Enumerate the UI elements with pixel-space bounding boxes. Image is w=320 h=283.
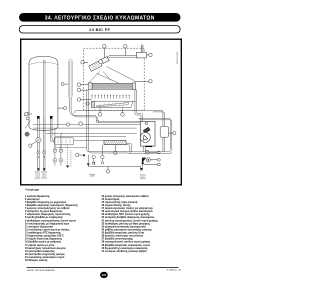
fan assembly: [89, 56, 109, 71]
label circle top B: [124, 45, 128, 56]
label circle exchanger right: [134, 80, 152, 84]
primary pipes to pump: [33, 118, 172, 150]
diagram frame: [21, 39, 182, 185]
svg-text:χρήσης: χρήσης: [35, 176, 41, 179]
DHW inlet widgets: [53, 145, 63, 166]
main heat exchanger: [89, 83, 136, 90]
page number badge: [100, 272, 108, 278]
svg-text:ΟΔΗΓΙΕΣ ΓΙΑ ΤΟΝ ΕΓΚΑΤΑΣΤΑΤΗ: ΟΔΗΓΙΕΣ ΓΙΑ ΤΟΝ ΕΓΚΑΤΑΣΤΑΤΗ: [27, 269, 56, 272]
svg-text:34. ΛΕΙΤΟΥΡΓΙΚΟ ΣΧΕΔΙΟ ΚΥΚΛΩΜΑ: 34. ΛΕΙΤΟΥΡΓΙΚΟ ΣΧΕΔΙΟ ΚΥΚΛΩΜΑΤΩΝ: [45, 16, 155, 22]
secondary exchanger outlet bends: [126, 143, 133, 153]
svg-text:41 σωλήνας σύνδεσης μπόιλερ-λ: 41 σωλήνας σύνδεσης μπόιλερ-λέβητα: [102, 250, 148, 253]
label cold water in: [41, 171, 47, 180]
label circle 50: [58, 107, 67, 110]
connector pipe: [54, 146, 86, 148]
three way valve dark body: [142, 158, 151, 165]
svg-text:δικτύου: δικτύου: [140, 177, 146, 180]
pump motor: [143, 127, 151, 134]
pump group housing: [141, 121, 156, 146]
label circle gas pipe: [106, 167, 109, 174]
expansion vessel / flow sensor: [160, 112, 172, 152]
gas arrow: [140, 168, 143, 171]
footer rule: [27, 267, 179, 269]
label circle top A: [103, 45, 107, 59]
burner: [91, 101, 133, 110]
svg-text:24 BIC FF: 24 BIC FF: [89, 27, 110, 32]
boiler dashed casing: [84, 48, 145, 110]
tap valve A with label: [92, 155, 95, 165]
left edge components: [24, 112, 41, 142]
drain dashed pipe: [68, 146, 71, 168]
label gas inlet: [89, 173, 95, 178]
tank sensor S2: [50, 116, 53, 119]
bottom right pipes: [128, 146, 172, 153]
label circle hydraulic: [66, 123, 69, 126]
label circle safety valve: [29, 142, 37, 148]
diverter valve crossed circle: [145, 150, 149, 154]
svg-text:αερίου: αερίου: [90, 175, 95, 178]
svg-text:Υπόμνημα: Υπόμνημα: [25, 187, 39, 191]
bottom pipe text labels: [34, 171, 146, 181]
label circle 49: [61, 83, 68, 86]
label circle filter: [76, 153, 85, 156]
label circles valve right: [150, 158, 160, 161]
pipe bends left: [55, 128, 63, 149]
legend right column: [102, 195, 159, 253]
label circle secondary exchanger: [114, 145, 117, 155]
secondary exchanger: [104, 140, 126, 144]
bypass loop: [54, 138, 74, 145]
flow arrows on DHW pipes: [37, 151, 46, 154]
pipes from column to boiler: [70, 98, 141, 123]
DHW outlet pipes: [38, 118, 55, 171]
storage tank: [29, 56, 58, 130]
vent circle on pipe: [96, 120, 98, 122]
svg-text:9912070100: 9912070100: [177, 51, 179, 64]
label circle pump top: [145, 122, 148, 125]
label circle mid left: [79, 122, 83, 126]
label circle gas A: [98, 110, 102, 116]
pump circle: [140, 132, 150, 142]
label circle gas B: [121, 110, 125, 116]
burner tip line: [133, 101, 136, 103]
anode column: [68, 60, 72, 98]
label circle 27: [147, 53, 153, 57]
title bar: [19, 13, 181, 22]
svg-text:71.04939.02 - GR: 71.04939.02 - GR: [166, 270, 181, 272]
label circle vessel: [173, 132, 176, 135]
boiler downpipes to return manifold: [87, 90, 128, 164]
flue terminal box: [137, 45, 147, 58]
label circle on downpipe: [86, 102, 89, 105]
gas line: [88, 165, 142, 171]
label circle valve: [149, 151, 160, 154]
label hot water out: [34, 172, 41, 180]
flue pipe: [109, 55, 137, 57]
legend left column: [25, 195, 79, 262]
subtitle pill: [19, 26, 180, 33]
flue hood: [88, 67, 135, 85]
svg-text:χρήσης: χρήσης: [42, 176, 48, 179]
exchanger downpipe: [135, 90, 142, 122]
label circle left: [25, 112, 33, 115]
label gas natural: [140, 173, 146, 180]
label circle fan: [81, 61, 88, 65]
tap valve B with label: [101, 145, 104, 165]
tank sensor S1: [37, 116, 40, 119]
tank dip tube: [43, 61, 45, 119]
svg-text:137: 137: [101, 273, 106, 277]
svg-text:22 θάλαμος καύσης: 22 θάλαμος καύσης: [25, 259, 48, 262]
return pipe top: [74, 110, 164, 113]
burner flame row: [92, 95, 130, 99]
label circles left stack: [77, 83, 88, 87]
